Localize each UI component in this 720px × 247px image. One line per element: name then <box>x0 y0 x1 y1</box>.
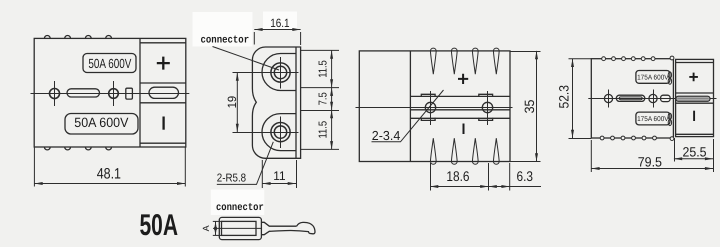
svg-text:connector: connector <box>216 202 264 214</box>
white patch behind top connector label <box>193 12 253 47</box>
terminal drawing <box>201 217 315 239</box>
svg-text:19: 19 <box>225 96 239 109</box>
svg-text:A: A <box>201 225 211 231</box>
view1 bottom bumps <box>44 147 111 150</box>
dimension 16.1 <box>254 16 300 45</box>
svg-text:2-R5.8: 2-R5.8 <box>217 173 246 185</box>
view1 divider <box>139 38 141 147</box>
svg-text:7.5: 7.5 <box>318 92 330 105</box>
svg-text:50A: 50A <box>140 209 179 242</box>
view3 top teeth <box>430 48 436 74</box>
VIEW 4: small front view body <box>588 56 716 140</box>
svg-text:25.5: 25.5 <box>683 145 707 160</box>
dimension 48.1 <box>34 147 185 187</box>
svg-text:48.1: 48.1 <box>97 166 121 183</box>
view2 stadium 1 <box>262 54 296 91</box>
dimension 52.3 <box>557 59 592 139</box>
view3 minus bar <box>463 124 465 135</box>
view3 hole 2 <box>482 102 492 112</box>
svg-text:35: 35 <box>522 100 537 114</box>
dimension 79.5 <box>591 139 713 172</box>
view4 small stadium <box>661 95 671 101</box>
terminal hook <box>297 222 315 233</box>
view1 label 50A 600V bottom <box>65 114 138 135</box>
terminal centerline <box>213 227 261 229</box>
terminal dim A ticks <box>213 220 223 222</box>
VIEW 2: side profile outline <box>252 47 300 158</box>
VIEW 1: front view body <box>31 36 190 150</box>
label 2-3.4 with leader <box>372 90 444 143</box>
svg-text:6.3: 6.3 <box>517 168 534 184</box>
view4 latch spring top <box>668 72 671 78</box>
view1 plus <box>157 57 170 70</box>
dimension 19 <box>225 73 264 133</box>
view2 hole 2 circles <box>271 123 290 142</box>
svg-text:2-3.4: 2-3.4 <box>372 128 401 143</box>
dimension 35 <box>510 51 541 162</box>
view4 top bumps <box>602 56 674 61</box>
svg-text:50A 600V: 50A 600V <box>74 115 128 130</box>
terminal neck <box>261 222 309 234</box>
view3 plus <box>458 74 468 84</box>
view4 centerline <box>588 98 716 100</box>
svg-text:175A 600V: 175A 600V <box>637 116 669 123</box>
dimension chain 11.5 / 7.5 / 11.5 <box>301 50 339 149</box>
dimension 11 <box>262 160 296 188</box>
view3 hole 1 <box>425 102 435 112</box>
label 2-R5.8 with leader <box>217 142 273 185</box>
terminal body <box>219 217 261 239</box>
svg-text:50A 600V: 50A 600V <box>88 56 131 71</box>
svg-text:18.6: 18.6 <box>446 168 469 184</box>
view4 latch spring bottom <box>668 113 671 119</box>
view4 hole 1 <box>604 94 612 102</box>
connector label top with leader <box>201 35 280 70</box>
svg-text:11.5: 11.5 <box>318 60 330 78</box>
view1 right section bands <box>140 42 186 44</box>
white patch behind bottom connector label <box>211 190 264 216</box>
view3 bottom teeth <box>430 138 436 164</box>
VIEW 3: side view body <box>356 48 513 164</box>
view4 slot <box>616 95 645 101</box>
view4 plus <box>689 73 698 82</box>
view1 top bumps <box>44 36 111 39</box>
view1 slot 1 <box>67 89 100 97</box>
svg-text:connector: connector <box>201 35 250 47</box>
view1 right slot <box>149 87 179 98</box>
dimension 25.5 <box>674 138 713 162</box>
svg-text:16.1: 16.1 <box>270 16 290 30</box>
view3 centerline <box>356 107 513 109</box>
view3 divider <box>409 51 411 162</box>
svg-text:11.5: 11.5 <box>318 121 330 139</box>
view4 hole 2 <box>649 94 657 102</box>
view1 small rect <box>126 88 133 99</box>
white patch behind 16.1 <box>263 12 297 30</box>
svg-text:11: 11 <box>273 169 285 183</box>
svg-text:52.3: 52.3 <box>557 85 572 109</box>
view4 right section <box>676 59 714 136</box>
view2 hole 1 circles <box>271 63 290 82</box>
view2 stadium 2 <box>262 114 296 151</box>
view1 label 50A 600V top <box>83 54 136 73</box>
view4 gray slot <box>676 96 710 101</box>
svg-text:79.5: 79.5 <box>638 154 662 169</box>
view4 label 175A 600V bottom <box>636 112 670 125</box>
dimension 18.6 <box>430 163 489 191</box>
dimension 6.3 <box>489 163 542 191</box>
view1 hole 2 <box>109 89 119 99</box>
terminal inner box <box>222 221 257 235</box>
view1 minus bar <box>162 117 164 130</box>
svg-text:175A 600V: 175A 600V <box>637 74 669 81</box>
view3 band <box>410 95 510 97</box>
view4 bottom bumps <box>600 136 674 140</box>
view1 hole 1 <box>50 89 60 99</box>
view4 label 175A 600V top <box>636 71 670 84</box>
view4 right section mid band <box>676 92 714 94</box>
view2 face line <box>295 47 297 158</box>
view1 centerline <box>31 93 190 95</box>
big 50A text <box>140 209 179 242</box>
view4 minus bar <box>693 111 695 121</box>
